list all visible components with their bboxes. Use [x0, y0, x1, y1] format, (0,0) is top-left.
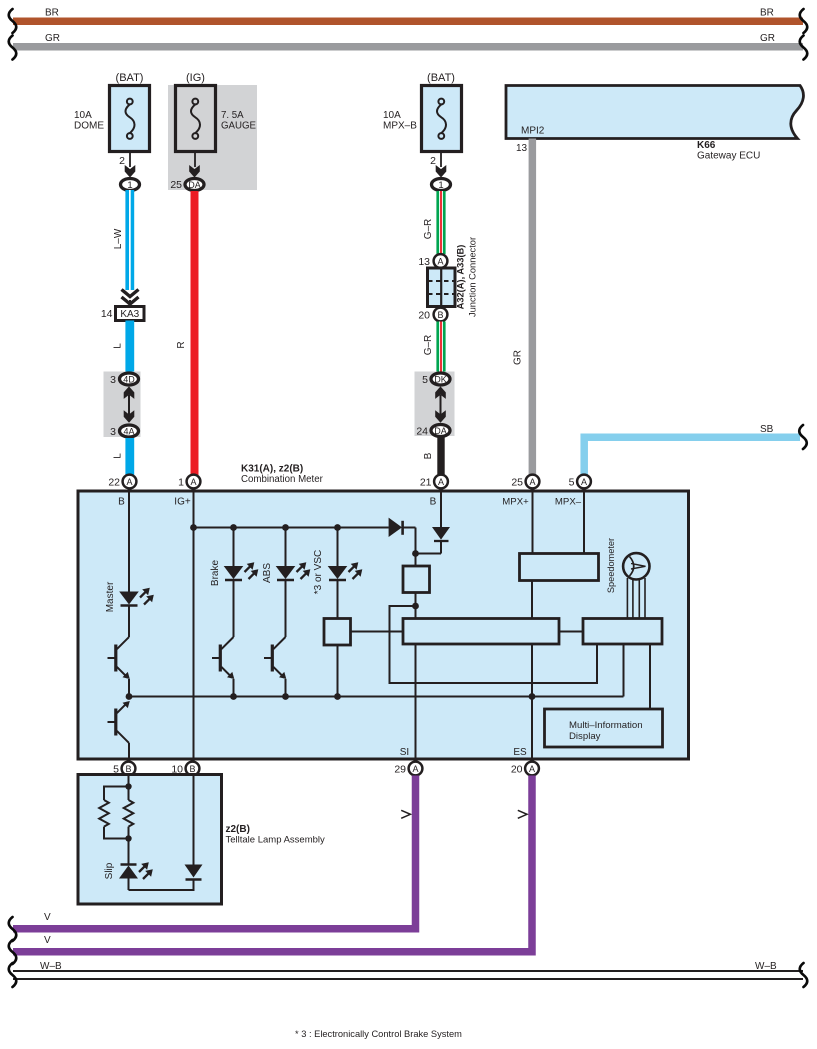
svg-text:G–R: G–R — [423, 335, 434, 356]
svg-text:K31(A), z2(B): K31(A), z2(B) — [241, 464, 303, 475]
svg-text:L: L — [113, 453, 124, 459]
svg-text:Display: Display — [569, 731, 601, 742]
svg-text:A: A — [529, 764, 535, 774]
svg-text:G–R: G–R — [423, 219, 434, 240]
svg-text:14: 14 — [101, 308, 113, 320]
svg-text:BR: BR — [760, 8, 774, 19]
svg-text:B: B — [189, 764, 195, 774]
svg-text:V: V — [44, 912, 51, 923]
svg-text:L–W: L–W — [113, 228, 124, 249]
svg-text:SI: SI — [400, 747, 409, 758]
svg-text:IG+: IG+ — [174, 497, 191, 508]
svg-text:24: 24 — [416, 426, 428, 438]
svg-text:Junction Connector: Junction Connector — [468, 237, 478, 317]
svg-text:3: 3 — [110, 374, 116, 386]
svg-text:B: B — [125, 764, 131, 774]
svg-text:Slip: Slip — [104, 862, 115, 879]
svg-text:* 3 : Electronically Control B: * 3 : Electronically Control Brake Syste… — [295, 1029, 462, 1039]
svg-text:L: L — [113, 343, 124, 349]
svg-text:1: 1 — [178, 477, 184, 489]
svg-text:BR: BR — [45, 8, 59, 19]
svg-text:MPX–: MPX– — [555, 497, 582, 508]
svg-text:GR: GR — [760, 33, 775, 44]
svg-text:GR: GR — [513, 350, 524, 365]
svg-text:A: A — [438, 477, 444, 487]
svg-text:DK: DK — [434, 374, 447, 384]
svg-text:1: 1 — [438, 180, 443, 191]
svg-text:Brake: Brake — [210, 560, 221, 587]
svg-text:Telltale Lamp Assembly: Telltale Lamp Assembly — [226, 835, 326, 846]
svg-text:A: A — [581, 477, 587, 487]
svg-text:13: 13 — [516, 143, 528, 154]
svg-text:W–B: W–B — [755, 961, 777, 972]
svg-text:MPX–B: MPX–B — [383, 121, 417, 132]
svg-text:7. 5A: 7. 5A — [221, 110, 244, 121]
svg-text:A32(A), A33(B): A32(A), A33(B) — [456, 245, 466, 310]
svg-text:3: 3 — [110, 426, 116, 438]
svg-text:B: B — [437, 310, 443, 320]
svg-text:22: 22 — [108, 477, 120, 489]
svg-text:A: A — [412, 764, 418, 774]
svg-text:GAUGE: GAUGE — [221, 121, 257, 132]
svg-text:DOME: DOME — [74, 121, 104, 132]
svg-text:B: B — [423, 452, 434, 459]
svg-text:(BAT): (BAT) — [427, 72, 455, 84]
svg-text:A: A — [190, 477, 196, 487]
svg-text:2: 2 — [119, 155, 125, 167]
svg-text:V: V — [44, 935, 51, 946]
svg-text:20: 20 — [511, 764, 523, 776]
svg-text:25: 25 — [511, 477, 523, 489]
svg-text:W–B: W–B — [40, 961, 62, 972]
svg-text:DA: DA — [188, 180, 201, 190]
svg-text:ES: ES — [513, 747, 527, 758]
svg-text:25: 25 — [170, 179, 182, 191]
svg-text:Multi–Information: Multi–Information — [569, 720, 643, 731]
svg-text:5: 5 — [569, 477, 575, 489]
svg-text:2: 2 — [430, 155, 436, 167]
svg-text:4A: 4A — [123, 426, 134, 436]
svg-text:DA: DA — [434, 426, 447, 436]
svg-text:K66: K66 — [697, 140, 716, 151]
svg-text:13: 13 — [418, 256, 430, 268]
svg-text:*3 or VSC: *3 or VSC — [313, 550, 324, 594]
svg-text:20: 20 — [418, 310, 430, 322]
svg-text:SB: SB — [760, 424, 774, 435]
svg-text:z2(B): z2(B) — [226, 824, 250, 835]
svg-text:GR: GR — [45, 33, 60, 44]
svg-text:A: A — [529, 477, 535, 487]
svg-text:ABS: ABS — [262, 563, 273, 583]
svg-text:4D: 4D — [123, 374, 135, 384]
svg-text:21: 21 — [420, 477, 432, 489]
svg-text:B: B — [118, 497, 125, 508]
svg-text:Speedometer: Speedometer — [606, 538, 616, 593]
svg-text:R: R — [176, 341, 187, 348]
svg-text:1: 1 — [127, 180, 132, 191]
svg-text:Master: Master — [105, 581, 116, 612]
svg-text:Gateway ECU: Gateway ECU — [697, 151, 760, 162]
svg-text:(BAT): (BAT) — [116, 72, 144, 84]
svg-text:A: A — [126, 477, 132, 487]
svg-text:29: 29 — [394, 764, 406, 776]
svg-text:(IG): (IG) — [186, 72, 205, 84]
svg-text:5: 5 — [422, 374, 428, 386]
svg-text:Combination Meter: Combination Meter — [241, 474, 324, 485]
svg-text:A: A — [437, 257, 443, 267]
svg-text:B: B — [430, 497, 437, 508]
svg-text:MPI2: MPI2 — [521, 126, 545, 137]
svg-text:MPX+: MPX+ — [502, 497, 529, 508]
svg-text:KA3: KA3 — [120, 309, 139, 320]
svg-text:10A: 10A — [74, 110, 92, 121]
svg-text:10A: 10A — [383, 110, 401, 121]
